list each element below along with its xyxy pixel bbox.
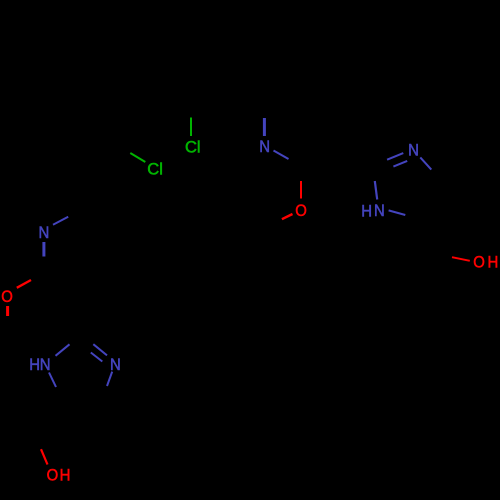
svg-text:N: N	[408, 141, 419, 159]
svg-text:O: O	[295, 202, 307, 220]
bond O-CH3 half (red) L9	[6, 306, 9, 316]
bond C2-O half (red) L8	[17, 280, 31, 288]
bond N3-C4 half (blue) R11	[420, 157, 431, 169]
bond C-Cl half (green) L1	[130, 153, 145, 162]
svg-text:H: H	[488, 254, 499, 272]
imidazole C2=N3 double bond halves (blue) R10	[387, 153, 403, 160]
svg-text:N: N	[40, 356, 51, 374]
svg-text:Cl: Cl	[147, 160, 163, 178]
bond N1-C5 half (blue) R14	[389, 210, 406, 215]
svg-text:O: O	[47, 467, 59, 485]
svg-text:Cl: Cl	[185, 138, 201, 156]
bond N3-C4 half (blue) L14	[107, 372, 112, 386]
svg-text:H: H	[29, 356, 40, 374]
bond CH2-OH half (red) L16	[41, 449, 48, 464]
bond O-CH3 half (red) R8	[282, 214, 293, 219]
svg-text:O: O	[1, 288, 13, 306]
bond CH2-OH half (red) R16	[452, 257, 470, 261]
bond N1-C2 half (blue) R13	[375, 181, 377, 200]
svg-text:N: N	[39, 224, 50, 242]
svg-text:H: H	[361, 202, 372, 220]
bond N1-C2 half (blue) L11a	[56, 344, 70, 356]
svg-text:O: O	[473, 254, 485, 272]
bond N-C2 half (blue) R5	[274, 151, 289, 160]
bond N-C6 half (blue) L4	[53, 217, 68, 225]
bond C-Cl half (green) R1	[190, 118, 192, 137]
bond C2-O half (red) R6	[300, 181, 302, 199]
svg-text:N: N	[110, 356, 121, 374]
svg-text:H: H	[60, 467, 71, 485]
bond C-N half (blue) R3	[263, 118, 266, 136]
bond N-C2 half (blue) L5	[42, 242, 45, 257]
svg-text:N: N	[374, 202, 385, 220]
bond N1-C5 half (blue) L11b	[49, 373, 56, 388]
svg-text:N: N	[259, 138, 270, 156]
imidazole C2=N3 double bond halves (blue) L13	[93, 344, 107, 355]
